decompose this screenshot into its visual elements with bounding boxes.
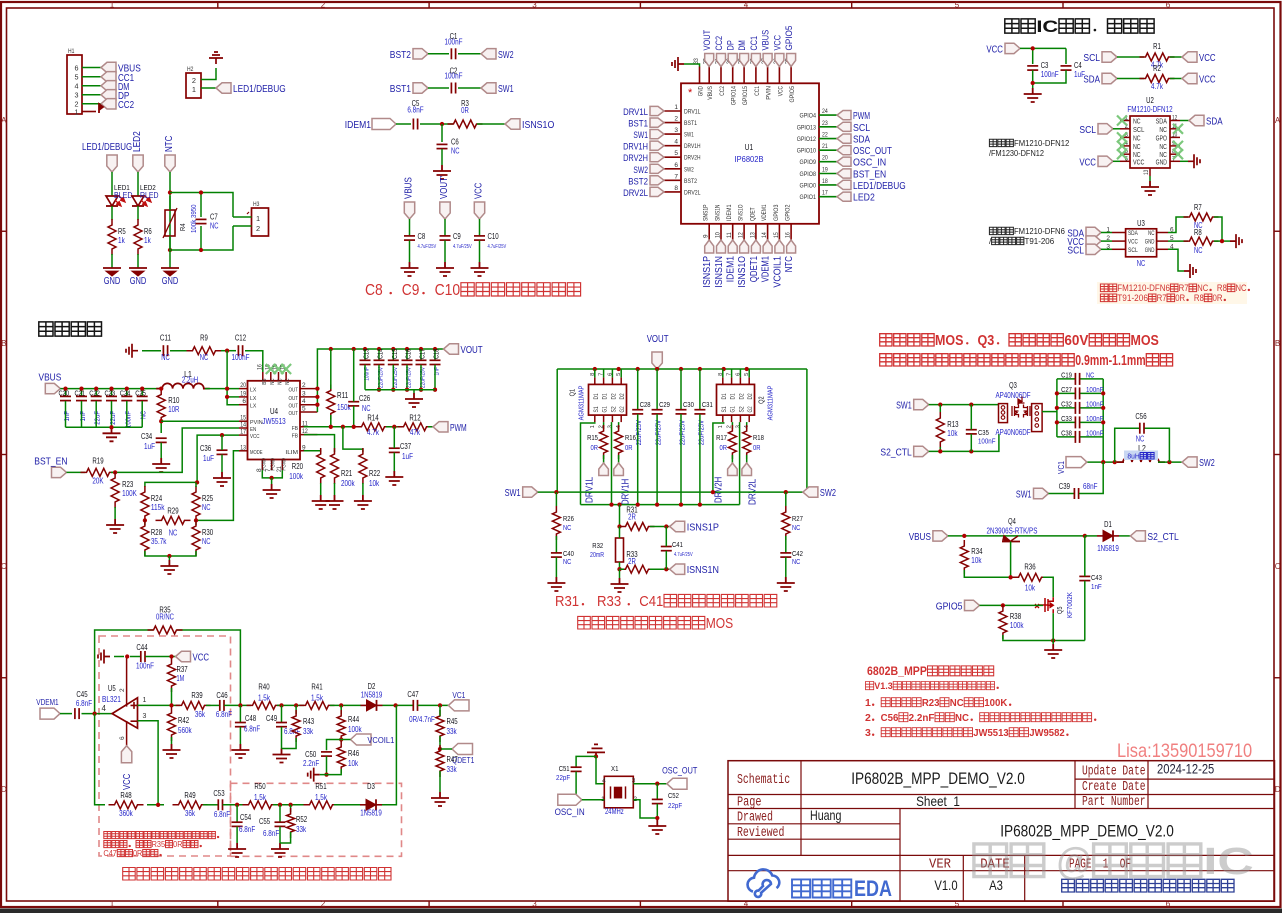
svg-text:6.8nF: 6.8nF xyxy=(214,810,230,819)
wire C11-R9 xyxy=(170,350,187,352)
resistor R27 xyxy=(782,506,790,540)
title boost xyxy=(39,322,53,336)
wire C3C4 gnd xyxy=(1032,70,1034,88)
wire R7 right xyxy=(1214,217,1222,241)
capacitor C10 xyxy=(474,235,485,237)
ground output caps xyxy=(405,393,423,407)
wire R22 tap xyxy=(343,427,363,452)
wire sense tap xyxy=(619,505,621,527)
resistor R19 xyxy=(81,468,116,476)
connector H3 xyxy=(252,208,269,236)
resistor R21 xyxy=(331,448,339,484)
svg-text:VCC: VCC xyxy=(1133,159,1144,166)
svg-text:CC2: CC2 xyxy=(714,36,725,51)
wire C8 top xyxy=(409,219,411,236)
svg-text:LX: LX xyxy=(250,388,256,394)
svg-text:C7: C7 xyxy=(210,213,218,222)
wire R16-DRV1H xyxy=(618,455,620,463)
svg-text:100nF: 100nF xyxy=(1041,70,1059,79)
svg-text:6: 6 xyxy=(1166,1,1171,10)
svg-text:DRV2H: DRV2H xyxy=(714,477,725,503)
capacitor C20 xyxy=(60,395,71,397)
svg-text:CC2: CC2 xyxy=(719,86,726,96)
Q3 body diode xyxy=(1018,397,1025,405)
svg-text:33k: 33k xyxy=(303,727,313,736)
svg-text:C26: C26 xyxy=(359,394,370,403)
capacitor C17 xyxy=(416,359,427,361)
svg-text:5: 5 xyxy=(302,406,306,413)
svg-text:C25: C25 xyxy=(135,389,146,398)
wire R14-R12 xyxy=(386,426,402,428)
wire R24-R25 top rail xyxy=(195,482,197,487)
capacitor C37 xyxy=(389,447,400,449)
svg-text:R23: R23 xyxy=(122,480,133,489)
wire C29 bot xyxy=(656,414,658,505)
svg-text:NC: NC xyxy=(210,222,219,231)
wire R25 bot xyxy=(195,521,197,525)
svg-text:D3: D3 xyxy=(367,782,375,791)
svg-text:100nF: 100nF xyxy=(445,37,463,46)
svg-text:MOS: MOS xyxy=(1130,333,1158,349)
wire R2-VCC xyxy=(1170,78,1182,80)
net flag DRV2H (U1) xyxy=(650,153,664,162)
net flag BST_EN (U1) xyxy=(837,169,851,178)
resistor R2 xyxy=(1140,75,1175,83)
svg-text:19: 19 xyxy=(240,390,246,397)
svg-text:NC: NC xyxy=(792,523,801,532)
wire VCOIL1 left loop xyxy=(327,740,342,751)
wire C28 top xyxy=(637,369,639,410)
svg-text:C37: C37 xyxy=(400,442,411,451)
company name xyxy=(1062,879,1075,892)
svg-text:5: 5 xyxy=(75,73,79,82)
svg-text:VCC: VCC xyxy=(1079,157,1096,168)
resistor R31 xyxy=(620,523,655,531)
svg-text:1.5k: 1.5k xyxy=(311,693,323,702)
resistor R36 xyxy=(1013,573,1048,581)
svg-text:0R: 0R xyxy=(1175,293,1185,303)
svg-text:33k: 33k xyxy=(447,727,457,736)
svg-text:LX: LX xyxy=(250,396,256,402)
svg-text:AGM311MAP: AGM311MAP xyxy=(766,385,775,420)
net flag ISNS1N xyxy=(670,564,685,574)
svg-text:6: 6 xyxy=(75,63,79,72)
capacitor C27 xyxy=(1074,387,1076,399)
wire R23 gnd xyxy=(114,507,116,519)
net flag OSC_IN (U1) xyxy=(837,157,851,166)
wire C7 top rail xyxy=(170,193,233,218)
svg-text:C38: C38 xyxy=(1061,428,1072,437)
wire C42 gnd xyxy=(785,557,787,577)
svg-text:0R/4.7nF: 0R/4.7nF xyxy=(409,715,435,724)
svg-text:1: 1 xyxy=(110,1,115,10)
wire C9 top xyxy=(444,219,446,236)
svg-text:H2: H2 xyxy=(187,66,194,73)
svg-text:11: 11 xyxy=(726,232,733,238)
wire LED1 top xyxy=(111,172,113,196)
svg-text:0R: 0R xyxy=(625,443,633,452)
svg-text:2024-12-25: 2024-12-25 xyxy=(1157,761,1214,777)
svg-text:C39: C39 xyxy=(1059,482,1070,491)
resistor R17 xyxy=(728,425,736,459)
svg-text:ISNS1N: ISNS1N xyxy=(687,565,719,576)
dashed box reserve 2 xyxy=(231,783,402,856)
svg-text:D1: D1 xyxy=(602,393,609,400)
wire C20 top xyxy=(65,389,67,396)
red note path switch line2 xyxy=(880,354,892,366)
net flag ISNS1P (U1 bottom) xyxy=(705,240,714,253)
wire C20 bottom xyxy=(65,401,67,427)
net flag IDEM1 (U1 bottom) xyxy=(728,240,737,253)
svg-text:100nF: 100nF xyxy=(1086,385,1104,394)
resistor R15 xyxy=(600,425,608,459)
capacitor C14 xyxy=(374,359,385,361)
net flag VCOIL1 (decode) xyxy=(351,734,372,745)
svg-text:V1.0: V1.0 xyxy=(934,877,957,893)
wire R45 leads xyxy=(439,705,441,716)
svg-text:23: 23 xyxy=(822,120,828,127)
svg-text:3: 3 xyxy=(532,900,537,909)
wire C13 bot xyxy=(364,365,366,390)
wire C27 row xyxy=(1057,392,1075,394)
wire LED2 top xyxy=(137,172,139,196)
svg-text:VCC: VCC xyxy=(986,44,1003,55)
svg-text:68nF: 68nF xyxy=(1083,482,1098,491)
svg-text:7: 7 xyxy=(265,468,272,472)
svg-text:S2_CTL: S2_CTL xyxy=(880,447,912,458)
svg-text:VDEM1: VDEM1 xyxy=(761,256,772,283)
svg-text:U3: U3 xyxy=(1137,219,1145,228)
svg-text:X1: X1 xyxy=(611,764,619,773)
svg-text:6.8nF: 6.8nF xyxy=(76,699,92,708)
ground R20 xyxy=(312,495,330,509)
wire U3 pin5 to R8 xyxy=(1168,240,1188,242)
svg-text:C49: C49 xyxy=(266,714,277,723)
wire NTC rail top xyxy=(169,193,171,251)
svg-text:NC: NC xyxy=(285,379,291,385)
wire R33-ISNS1N xyxy=(650,568,670,570)
net flag DRV1H (q) xyxy=(614,463,624,476)
wire R26-C40 xyxy=(555,536,557,553)
net flag BST_EN (boost) xyxy=(52,467,67,477)
svg-text:NC: NC xyxy=(1086,370,1095,379)
ground C10 xyxy=(471,262,489,276)
wire LX rail xyxy=(227,388,239,405)
svg-text:NC: NC xyxy=(202,537,211,546)
svg-text:OSC_IN: OSC_IN xyxy=(555,807,585,818)
svg-text:C54: C54 xyxy=(240,813,252,822)
svg-text:NC: NC xyxy=(169,528,178,537)
net flag VCC (R2) xyxy=(1182,73,1197,83)
svg-text:20: 20 xyxy=(240,382,246,389)
wire C54 gnd xyxy=(236,827,238,843)
wire C41 leads xyxy=(665,527,667,547)
svg-text:100nF: 100nF xyxy=(1086,399,1104,408)
svg-text:FM1210-DFN12: FM1210-DFN12 xyxy=(1127,105,1173,114)
f xyxy=(652,352,662,369)
wire R44 top xyxy=(340,705,342,714)
wire C7 taps xyxy=(200,193,202,218)
power symbol pin1 H1 xyxy=(99,104,103,113)
svg-text:C: C xyxy=(1,562,7,571)
svg-text:GPIO12: GPIO12 xyxy=(797,136,817,143)
svg-text:PVIN: PVIN xyxy=(250,420,263,426)
svg-text:1.5k: 1.5k xyxy=(254,793,266,802)
wire capbank gnd rail xyxy=(66,426,143,428)
wire L2 row xyxy=(1115,461,1124,463)
wire C30 bot xyxy=(680,414,682,505)
svg-text:R21: R21 xyxy=(341,469,352,478)
svg-text:D1: D1 xyxy=(1104,520,1112,529)
svg-text:GPIO13: GPIO13 xyxy=(797,124,817,131)
svg-text:R22: R22 xyxy=(369,469,380,478)
f xyxy=(133,155,143,172)
LED D-LED2 xyxy=(132,196,144,206)
svg-text:VBUS: VBUS xyxy=(761,30,772,51)
svg-text:C6: C6 xyxy=(451,138,459,147)
svg-text:22: 22 xyxy=(822,132,828,139)
svg-text:360k: 360k xyxy=(119,809,133,818)
svg-text:NC: NC xyxy=(563,523,572,532)
svg-text:SDA: SDA xyxy=(1206,117,1223,128)
wire U2 GND xyxy=(1180,160,1188,162)
capacitor C4 xyxy=(1061,65,1072,67)
svg-text:SDA: SDA xyxy=(1156,119,1168,126)
net flag SCL (U1) xyxy=(837,122,851,131)
svg-text:R40: R40 xyxy=(258,682,270,691)
svg-text:VCC: VCC xyxy=(250,434,260,440)
capacitor C29 xyxy=(652,409,663,411)
wire C22 top xyxy=(95,389,97,396)
svg-text:3: 3 xyxy=(674,127,678,134)
svg-text:R34: R34 xyxy=(971,547,983,556)
svg-text:V1.3: V1.3 xyxy=(874,681,892,692)
wire C56 loop xyxy=(1115,428,1140,462)
wire R18-DRV2L xyxy=(746,455,748,463)
svg-text:OSC_OUT: OSC_OUT xyxy=(662,766,697,777)
svg-text:NC: NC xyxy=(1159,144,1167,151)
power flag VOUT' xyxy=(440,202,450,219)
svg-text:NC: NC xyxy=(1159,152,1167,159)
wire C21 bottom xyxy=(81,401,83,427)
svg-text:1: 1 xyxy=(75,107,79,116)
net flag VCOIL1 (U1 bottom) xyxy=(775,240,784,253)
transistor Q1 AGM311MAP xyxy=(589,384,627,415)
svg-text:C13: C13 xyxy=(362,349,371,359)
svg-text:2N3906S-RTK/PS: 2N3906S-RTK/PS xyxy=(987,527,1038,536)
svg-text:3: 3 xyxy=(607,425,613,428)
svg-text:22uF: 22uF xyxy=(108,411,117,425)
svg-text:R15: R15 xyxy=(587,433,598,442)
wire C48 top xyxy=(239,705,241,722)
capacitor C32 xyxy=(1074,402,1076,414)
ground C3 xyxy=(1024,88,1042,102)
wire R32 leads xyxy=(619,527,621,539)
resistor R51 xyxy=(304,801,339,809)
net flag LED1/DEBUG (U1) xyxy=(837,180,851,189)
wire R27-C42 xyxy=(785,536,787,553)
capacitor C55 xyxy=(275,821,286,823)
wire C21 top xyxy=(81,389,83,396)
resistor R25 xyxy=(192,486,200,522)
capacitor C46 xyxy=(219,700,221,711)
ground arrow C44 xyxy=(98,650,110,664)
capacitor C21 xyxy=(76,395,87,397)
svg-text:C23: C23 xyxy=(105,389,116,398)
svg-text:100k: 100k xyxy=(348,725,362,734)
svg-text:R35: R35 xyxy=(152,840,166,849)
wire pin2 path xyxy=(633,800,657,818)
svg-text:18: 18 xyxy=(822,178,828,185)
wire Q2 G2 to R18 xyxy=(746,422,748,429)
svg-text:C36: C36 xyxy=(200,444,211,453)
wire right vert xyxy=(806,369,808,492)
svg-text:VBUS: VBUS xyxy=(909,532,931,543)
svg-text:C20: C20 xyxy=(59,389,70,398)
ground capbank xyxy=(103,427,121,441)
wire C48 gnd xyxy=(239,727,241,744)
wire R3-ISNS1O xyxy=(477,123,505,125)
svg-text:2: 2 xyxy=(302,382,306,389)
op-amp power pins xyxy=(126,657,128,707)
svg-text:GPIO5: GPIO5 xyxy=(936,601,963,612)
svg-text:C24: C24 xyxy=(120,389,131,398)
svg-text:C33: C33 xyxy=(1061,414,1072,423)
svg-text:SW2: SW2 xyxy=(684,166,694,173)
wire C24 top xyxy=(126,389,128,396)
capacitor C35 xyxy=(966,429,977,431)
net flag VCC (U3) xyxy=(1086,236,1101,246)
svg-text:1N5819: 1N5819 xyxy=(1097,544,1119,553)
wire gnd stub q5 xyxy=(1052,641,1054,645)
wire R33 left xyxy=(620,568,625,570)
svg-text:NC: NC xyxy=(362,404,371,413)
resistor R43 xyxy=(292,710,300,742)
capacitor C43 xyxy=(1079,575,1090,577)
svg-text:GPIO9: GPIO9 xyxy=(800,159,817,166)
svg-text:RLED: RLED xyxy=(140,190,159,200)
svg-text:VOUT: VOUT xyxy=(647,334,669,345)
U4 top pins xyxy=(262,372,264,381)
svg-text:1: 1 xyxy=(110,900,115,909)
svg-text:R27: R27 xyxy=(792,514,803,523)
capacitor C31 xyxy=(694,409,705,411)
capacitor C38 xyxy=(1074,431,1076,443)
svg-text:22uF/25V: 22uF/25V xyxy=(696,420,705,445)
wire Q5 source xyxy=(1052,613,1054,640)
svg-text:C53: C53 xyxy=(213,789,224,798)
svg-text:GPIO2: GPIO2 xyxy=(785,204,792,221)
capacitor C42 xyxy=(780,552,791,554)
svg-text:24MHz: 24MHz xyxy=(605,807,624,816)
svg-text:SCL: SCL xyxy=(853,122,870,134)
inductor L2 xyxy=(1117,458,1165,463)
svg-text:FB: FB xyxy=(292,426,298,432)
svg-text:2: 2 xyxy=(321,900,326,909)
ground C54 xyxy=(228,843,246,857)
resistor R49 xyxy=(173,801,208,809)
svg-text:D1: D1 xyxy=(721,393,728,400)
svg-text:U5: U5 xyxy=(108,684,116,693)
wire R37 bot xyxy=(171,688,173,706)
svg-text:33: 33 xyxy=(693,58,700,64)
svg-text:VCOIL1: VCOIL1 xyxy=(772,256,783,288)
U1 right pins xyxy=(819,114,837,116)
svg-text:B: B xyxy=(1275,339,1280,348)
net flag SDA (U2) xyxy=(1189,115,1204,125)
wire C16 top xyxy=(406,349,408,360)
svg-text:AGM311MAP: AGM311MAP xyxy=(577,385,586,420)
svg-text:@: @ xyxy=(1046,841,1091,883)
svg-text:R18: R18 xyxy=(753,433,764,442)
wire C30 top xyxy=(680,369,682,410)
wire Q4 base xyxy=(1010,542,1012,578)
wire R6-GND xyxy=(137,254,139,268)
wire R40-R41 xyxy=(277,704,304,706)
svg-text:4.7k: 4.7k xyxy=(1151,82,1163,91)
wire node-C51 xyxy=(576,756,596,767)
svg-text:IDEM1: IDEM1 xyxy=(726,204,733,221)
svg-text:GPIO3: GPIO3 xyxy=(773,204,780,221)
svg-text:0R: 0R xyxy=(591,443,599,452)
net flag QDET1 (U1 bottom) xyxy=(751,240,760,253)
wire Q1 S2 xyxy=(611,422,613,505)
svg-text:LED1/DEBUG: LED1/DEBUG xyxy=(853,180,906,192)
resistor R47 xyxy=(436,745,444,777)
svg-text:10: 10 xyxy=(715,232,722,238)
wire C25 bottom xyxy=(141,401,143,427)
svg-text:100k: 100k xyxy=(1010,621,1024,630)
wire R13 bot xyxy=(939,447,941,451)
U1 bottom pins xyxy=(708,224,710,240)
svg-text:IC: IC xyxy=(1036,18,1058,36)
resistor R13 xyxy=(936,412,944,448)
svg-text:Sheet_1: Sheet_1 xyxy=(916,793,960,809)
svg-text:0.9mm-1.1mm: 0.9mm-1.1mm xyxy=(1075,353,1145,369)
wire R11 top xyxy=(330,349,332,389)
svg-text:R42: R42 xyxy=(178,716,189,725)
wire C8 bottom xyxy=(409,241,411,263)
title auth IC xyxy=(1005,19,1019,33)
wire left vert xyxy=(556,369,558,492)
svg-text:NC: NC xyxy=(451,147,460,156)
svg-text:1: 1 xyxy=(143,697,147,704)
svg-text:100nF: 100nF xyxy=(232,353,250,362)
svg-text:60V: 60V xyxy=(1064,333,1089,349)
svg-text:4: 4 xyxy=(102,704,107,713)
svg-text:R5: R5 xyxy=(118,227,126,236)
svg-text:U1: U1 xyxy=(745,142,754,152)
svg-text:1uF: 1uF xyxy=(144,442,155,451)
svg-text:C47: C47 xyxy=(103,849,117,858)
svg-text:0R: 0R xyxy=(173,840,182,849)
svg-text:SNS1N: SNS1N xyxy=(715,204,722,221)
net flag LED1/DEBUG (H2) xyxy=(216,83,231,93)
resistor R46 xyxy=(337,741,345,773)
wires H1 pins xyxy=(82,67,101,69)
svg-text:VCC: VCC xyxy=(777,86,784,97)
svg-text:22pF: 22pF xyxy=(668,801,682,810)
svg-text:2.2nF: 2.2nF xyxy=(909,712,935,724)
svg-text:A: A xyxy=(1275,116,1281,125)
wire C18 bot xyxy=(434,365,436,390)
capacitor C1 xyxy=(450,48,452,59)
wire R12-PWM xyxy=(428,426,433,428)
wire C49 gnd xyxy=(281,727,283,749)
svg-text:VOUT: VOUT xyxy=(461,345,483,356)
ground C48 xyxy=(231,744,249,758)
svg-text:S2: S2 xyxy=(738,406,745,413)
